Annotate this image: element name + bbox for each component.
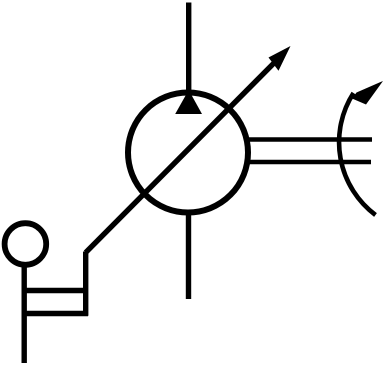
variability arrow shaft (diagonal through pump) (86, 61, 276, 253)
pump body circle (128, 93, 248, 213)
drive shaft top line (245, 137, 372, 142)
flow direction triangle (solid, pointing up) (175, 90, 202, 114)
rotation direction arc (339, 93, 375, 215)
control box top edge (22, 288, 88, 293)
control link riser / box right edge (83, 252, 88, 316)
bottom port line (186, 211, 191, 299)
top port line (186, 3, 191, 93)
control knob circle (5, 223, 47, 265)
rotation arrowhead (352, 81, 383, 105)
drive shaft bottom line (245, 160, 371, 165)
control stem (22, 264, 27, 363)
control box bottom edge (22, 311, 88, 316)
variability arrowhead (269, 46, 291, 71)
